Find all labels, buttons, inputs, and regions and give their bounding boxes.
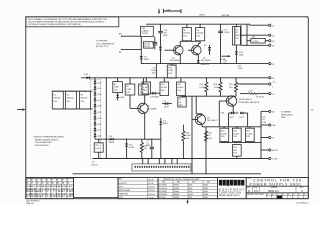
- svg-text:2: 2: [42, 196, 43, 198]
- svg-text:16,000: 16,000: [233, 133, 239, 135]
- capacitor C14: [158, 24, 168, 39]
- terminal 1: [269, 83, 274, 89]
- terminal 43: [269, 40, 275, 43]
- svg-text:TO SERIES: TO SERIES: [281, 112, 292, 114]
- svg-text:DIODES ARE D662: DIODES ARE D662: [35, 141, 52, 144]
- svg-text:1N671: 1N671: [204, 197, 209, 199]
- svg-text:14: 14: [272, 64, 274, 66]
- resistor R14: [160, 77, 169, 95]
- svg-text:G: G: [299, 194, 300, 196]
- diode D8: [151, 92, 161, 99]
- wire +15V to terminal 16: [240, 90, 269, 98]
- svg-text:R10: R10: [95, 145, 98, 147]
- svg-text:A1: A1: [272, 111, 274, 114]
- wire terminal 45: [241, 25, 269, 46]
- svg-text:1,000: 1,000: [168, 70, 173, 72]
- zone label 4D: [311, 110, 314, 112]
- diode string D14-D22: [94, 77, 102, 139]
- svg-text:2N4258: 2N4258: [174, 188, 180, 190]
- svg-text:10%: 10%: [81, 101, 85, 103]
- svg-text:CS: CS: [254, 189, 258, 193]
- wire rail y127: [206, 126, 261, 158]
- svg-text:10%: 10%: [161, 90, 165, 92]
- svg-text:RESISTORS ARE 1/4W,5%,: RESISTORS ARE 1/4W,5%,: [35, 138, 59, 141]
- svg-text:1,000: 1,000: [214, 87, 219, 89]
- svg-text:MFD: MFD: [179, 105, 184, 107]
- terminal 42: [261, 136, 274, 139]
- wire rail y142.6: [219, 142, 261, 143]
- wire bottom rail y158.5: [93, 158, 261, 159]
- svg-text:D671: D671: [239, 117, 244, 119]
- svg-text:R5: R5: [114, 84, 116, 86]
- svg-text:1,800: 1,800: [140, 89, 145, 91]
- svg-text:2N3639: 2N3639: [174, 191, 180, 193]
- svg-text:37: 37: [67, 183, 69, 185]
- svg-text:l: l: [242, 181, 243, 186]
- svg-text:18: 18: [47, 183, 49, 185]
- wire bus mid rail: [141, 63, 269, 64]
- svg-text:566: 566: [272, 125, 275, 127]
- wire terminal 1: [238, 82, 276, 85]
- svg-text:B: B: [272, 194, 273, 196]
- svg-text:750: 750: [144, 148, 147, 150]
- top annotation text 2: [222, 15, 230, 17]
- svg-text:DEC3639B: DEC3639B: [159, 191, 167, 193]
- diode D6: [204, 45, 211, 55]
- svg-text:D-21: D-21: [97, 124, 101, 126]
- resistor R24 zigzag: [182, 125, 191, 159]
- svg-text:180,000: 180,000: [81, 98, 88, 100]
- svg-text:D-660: D-660: [189, 194, 193, 196]
- resistor R9: [139, 78, 149, 95]
- svg-text:11-4-68: 11-4-68: [148, 197, 153, 199]
- svg-text:180,000: 180,000: [183, 33, 190, 35]
- wire top rail right end: [249, 24, 269, 26]
- svg-text:10%: 10%: [53, 101, 57, 103]
- wire bus lower rail: [81, 77, 269, 79]
- diode D9: [162, 100, 172, 108]
- svg-text:D-23: D-23: [97, 136, 101, 138]
- svg-text:D662: D662: [239, 55, 244, 57]
- svg-text:37: 37: [31, 183, 33, 185]
- svg-text:CORPORATION: CORPORATION: [219, 191, 242, 195]
- fuse F1 slow blow: [144, 42, 154, 48]
- revision table bottom-left: [26, 178, 74, 199]
- svg-text:D664: D664: [189, 185, 193, 187]
- svg-text:R14: R14: [161, 84, 164, 86]
- svg-text:R17: R17: [200, 84, 203, 86]
- note unless otherwise indicated: [34, 136, 65, 147]
- svg-text:13: 13: [66, 196, 68, 198]
- diode D26: [239, 112, 247, 119]
- svg-text:D670: D670: [164, 107, 169, 109]
- svg-text:10%: 10%: [246, 136, 250, 138]
- svg-text:05: 05: [58, 196, 60, 198]
- resistor R18: [220, 127, 229, 143]
- svg-text:VOLTS: VOLTS: [92, 164, 99, 166]
- svg-text:D5: D5: [155, 44, 157, 46]
- svg-text:D-15: D-15: [97, 88, 101, 90]
- svg-text:47: 47: [208, 135, 210, 137]
- svg-text:-15: -15: [92, 162, 95, 164]
- svg-text:2: 2: [64, 196, 65, 198]
- svg-text:R54: R54: [186, 132, 189, 134]
- wire Q8 base: [219, 101, 224, 127]
- svg-text:DEC4258: DEC4258: [159, 197, 166, 199]
- svg-text:(RT1) AT 25°C: (RT1) AT 25°C: [96, 45, 109, 48]
- svg-text:DEC3009B: DEC3009B: [170, 60, 180, 62]
- diode D6A on Q2 emitter: [197, 55, 209, 66]
- svg-text:9800-0-1: 9800-0-1: [268, 189, 279, 193]
- svg-text:42: 42: [272, 138, 274, 140]
- svg-text:D-19: D-19: [97, 112, 101, 114]
- svg-text:10%: 10%: [152, 73, 156, 75]
- svg-text:D6A D670: D6A D670: [201, 63, 210, 66]
- svg-text:37: 37: [37, 183, 39, 185]
- svg-text:1N645: 1N645: [204, 185, 209, 187]
- resistor R15: [177, 77, 186, 96]
- svg-text:D671: D671: [189, 197, 193, 199]
- svg-text:4,300: 4,300: [186, 135, 191, 137]
- svg-text:R6: R6: [183, 30, 185, 32]
- top annotation text 1: [199, 14, 205, 16]
- capacitor C22 label: [262, 117, 267, 124]
- svg-text:1N4 JW4: 1N4 JW4: [222, 15, 230, 17]
- resistor R7: [125, 77, 135, 95]
- svg-text:DEC3009B: DEC3009B: [159, 185, 167, 187]
- svg-text:SIZE: SIZE: [247, 187, 250, 189]
- arrow below chart: [186, 199, 188, 203]
- svg-text:1,800: 1,800: [114, 87, 119, 89]
- diode D30: [125, 139, 134, 159]
- svg-text:R23: R23: [233, 147, 236, 149]
- svg-text:10%: 10%: [114, 89, 118, 91]
- svg-text:LM102: LM102: [199, 14, 205, 16]
- resistor R1: [52, 91, 63, 109]
- transistor Q4: [135, 103, 157, 113]
- svg-text:42,000: 42,000: [161, 87, 167, 89]
- svg-text:D-16: D-16: [97, 94, 101, 96]
- svg-text:46: 46: [57, 182, 59, 185]
- svg-text:R7: R7: [126, 86, 128, 88]
- svg-text:CODE: CODE: [253, 187, 257, 189]
- svg-text:10,000: 10,000: [252, 41, 258, 43]
- svg-text:150: 150: [229, 87, 232, 89]
- svg-text:10%: 10%: [186, 138, 190, 140]
- svg-text:E: E: [288, 194, 289, 196]
- svg-text:Q9: Q9: [207, 117, 210, 119]
- svg-text:3: 3: [45, 196, 46, 198]
- svg-text:MFD: MFD: [163, 35, 168, 37]
- svg-text:180,000: 180,000: [67, 98, 74, 100]
- svg-text:TITLE: TITLE: [247, 178, 251, 180]
- signature table: [118, 177, 158, 199]
- svg-text:05: 05: [37, 196, 39, 198]
- svg-text:55: 55: [26, 183, 28, 185]
- svg-text:13: 13: [71, 196, 73, 198]
- svg-text:1N625: 1N625: [204, 188, 209, 190]
- sheet border left: [25, 17, 27, 199]
- svg-text:D664: D664: [144, 59, 149, 61]
- transistor Q1: [170, 45, 183, 66]
- resistor R3: [79, 91, 90, 110]
- diode D1: [140, 54, 149, 63]
- capacitor C2: [178, 96, 186, 107]
- svg-text:680: 680: [224, 63, 227, 65]
- svg-text:J: J: [67, 180, 68, 182]
- svg-text:16,000: 16,000: [246, 133, 252, 135]
- svg-text:10,000: 10,000: [221, 133, 227, 135]
- svg-text:K1: K1: [236, 29, 238, 31]
- resistor R21: [245, 127, 254, 143]
- svg-text:D-13: D-13: [84, 74, 88, 76]
- top annotation arrow: [158, 9, 160, 14]
- resistor R17 zigzag: [200, 77, 208, 96]
- svg-text:2R 29.4%: 2R 29.4%: [256, 96, 265, 98]
- wire rail y139.2: [95, 138, 161, 140]
- svg-text:BLOW: BLOW: [144, 46, 150, 48]
- svg-text:1,500: 1,500: [238, 68, 243, 70]
- svg-text:i: i: [224, 181, 225, 186]
- svg-text:Q4: Q4: [147, 106, 150, 108]
- wire Q4 collector: [144, 95, 145, 140]
- svg-text:16: 16: [272, 94, 274, 96]
- wire stubs to connector: [143, 159, 178, 164]
- wire zero volt rail: [73, 173, 262, 175]
- svg-text:H: H: [304, 194, 305, 196]
- off-sheet arrow at left border: [17, 108, 26, 110]
- svg-text:10-21-68: 10-21-68: [148, 187, 154, 189]
- title block: [246, 177, 308, 198]
- svg-text:CIRCUITS ARE PROPRIETARY IN NA: CIRCUITS ARE PROPRIETARY IN NATURE AND S…: [28, 20, 106, 23]
- svg-text:R8: R8: [196, 30, 198, 32]
- wire left network top: [52, 90, 92, 92]
- wire zigzag bottoms join: [182, 96, 236, 114]
- label -15 VOLTS: [92, 162, 99, 167]
- terminal 18: [269, 77, 274, 80]
- svg-text:40: 40: [236, 32, 238, 34]
- svg-text:F: F: [294, 194, 295, 196]
- resistor R6: [182, 24, 191, 42]
- svg-text:92: 92: [53, 196, 55, 198]
- svg-text:UNLESS OTHERWISE INDICATED:: UNLESS OTHERWISE INDICATED:: [34, 136, 65, 139]
- svg-text:R12: R12: [144, 145, 147, 147]
- svg-text:18: 18: [272, 78, 274, 80]
- svg-text:D: D: [283, 194, 284, 196]
- svg-text:27 BK: 27 BK: [272, 159, 278, 161]
- svg-text:2N4258: 2N4258: [174, 197, 180, 199]
- svg-text:PRINTED CIRCUIT REV.: PRINTED CIRCUIT REV.: [247, 194, 264, 196]
- svg-text:CHK'D: CHK'D: [119, 186, 125, 188]
- wire long vertical x106: [106, 77, 107, 158]
- svg-text:R15: R15: [177, 84, 180, 86]
- svg-text:R4: R4: [143, 84, 145, 86]
- svg-text:D: D: [248, 189, 250, 193]
- svg-text:18: 18: [31, 196, 33, 198]
- conversion chart: [158, 177, 218, 199]
- svg-text:MFD: MFD: [236, 35, 241, 37]
- svg-text:TO PRINTED: TO PRINTED: [96, 41, 108, 43]
- wire Q9 connections: [191, 96, 206, 158]
- band top line: [26, 176, 309, 178]
- svg-text:180,000: 180,000: [196, 33, 203, 35]
- svg-text:1,800: 1,800: [126, 89, 131, 91]
- svg-text:46: 46: [51, 182, 53, 185]
- svg-text:d: d: [219, 181, 222, 186]
- svg-text:10%: 10%: [233, 136, 237, 138]
- svg-text:44: 44: [272, 35, 274, 37]
- svg-text:D662: D662: [189, 188, 193, 190]
- transistor Q2: [188, 45, 211, 62]
- wire Q4 base left: [130, 95, 135, 108]
- faint print smudge bottom right: [296, 202, 308, 204]
- wire left network bottom: [52, 108, 92, 110]
- svg-text:COPYRIGHT 1968 BY DIGITAL EQUI: COPYRIGHT 1968 BY DIGITAL EQUIPMENT CORP…: [28, 23, 81, 26]
- svg-text:+15V: +15V: [248, 90, 253, 92]
- resistor R12 zigzag: [140, 139, 147, 159]
- note to series regulator: [281, 112, 293, 120]
- svg-text:C54: C54: [146, 140, 149, 142]
- svg-text:10%: 10%: [183, 35, 187, 37]
- svg-text:+15: +15: [272, 82, 275, 84]
- terminal 14: [269, 63, 274, 66]
- svg-text:18: 18: [41, 183, 43, 185]
- svg-text:10%: 10%: [196, 35, 200, 37]
- svg-text:R3: R3: [81, 94, 83, 96]
- terminal 21: [269, 24, 275, 27]
- svg-text:C2: C2: [179, 99, 181, 101]
- diode D5: [155, 39, 162, 64]
- svg-text:10%: 10%: [233, 153, 237, 155]
- svg-text:10%: 10%: [168, 73, 172, 75]
- wire thermistor lower: [119, 49, 141, 54]
- svg-text:R2: R2: [67, 94, 69, 96]
- svg-text:CKT'L THERMISTOR: CKT'L THERMISTOR: [96, 43, 115, 45]
- svg-text:2N6534: 2N6534: [174, 194, 180, 196]
- svg-text:05: 05: [55, 196, 57, 198]
- svg-text:Q8 DEC EA-1-2: Q8 DEC EA-1-2: [239, 98, 252, 101]
- transformer LM1: [141, 26, 154, 36]
- svg-text:REGULATOR: REGULATOR: [281, 113, 293, 116]
- transistor Q8: [223, 96, 260, 106]
- svg-text:5408: 5408: [281, 117, 285, 119]
- svg-text:63,000: 63,000: [177, 87, 183, 89]
- svg-text:R9: R9: [140, 86, 142, 88]
- svg-text:i: i: [231, 181, 232, 186]
- svg-text:2N3009: 2N3009: [174, 185, 180, 187]
- terminal 566: [261, 124, 275, 127]
- svg-text:g: g: [226, 181, 229, 186]
- svg-text:R21: R21: [246, 131, 249, 133]
- resistor R16: [167, 63, 176, 78]
- svg-text:D-18: D-18: [97, 106, 101, 108]
- resistor R19: [232, 127, 241, 143]
- svg-text:61: 61: [50, 196, 52, 198]
- svg-text:10%: 10%: [126, 92, 130, 94]
- sheet border top: [26, 16, 309, 18]
- svg-text:D664: D664: [120, 97, 125, 99]
- capacitor C24 label: [224, 60, 227, 64]
- svg-text:R22: R22: [229, 84, 232, 86]
- wire terminal bus vertical: [260, 111, 261, 159]
- resistor R4: [142, 77, 151, 94]
- svg-text:680: 680: [233, 150, 236, 152]
- svg-text:DEC6534B: DEC6534B: [159, 194, 167, 196]
- note TO PRINTED CKT THERMISTOR: [96, 41, 115, 49]
- arrow into relay: [222, 55, 232, 61]
- svg-text:(TURN SAT) SEE NOTE: (TURN SAT) SEE NOTE: [239, 101, 260, 104]
- resistor R20 zigzag: [214, 77, 222, 96]
- diode D24a: [116, 93, 124, 101]
- svg-text:10-7-68: 10-7-68: [148, 179, 154, 181]
- svg-text:180,000: 180,000: [53, 98, 60, 100]
- svg-text:18: 18: [62, 183, 64, 185]
- svg-text:D-20: D-20: [97, 118, 101, 120]
- capacitor C1: [153, 37, 158, 50]
- svg-text:10-31-68: 10-31-68: [148, 190, 154, 192]
- capacitor C44 label: [238, 65, 243, 69]
- svg-text:26: 26: [61, 196, 63, 198]
- svg-text:D6: D6: [204, 45, 206, 47]
- terminal 44: [269, 34, 275, 37]
- svg-text:R19: R19: [233, 131, 236, 133]
- diode D5b: [159, 118, 167, 159]
- svg-text:DRA 110: DRA 110: [26, 202, 33, 205]
- svg-text:D9: D9: [163, 100, 165, 102]
- diode D10: [235, 51, 244, 56]
- svg-text:C46: C46: [221, 113, 224, 115]
- transistor Q9: [192, 114, 217, 124]
- svg-text:A: A: [301, 189, 303, 193]
- svg-text:.01: .01: [179, 102, 182, 104]
- resistor R8: [196, 24, 205, 42]
- svg-text:2: 2: [47, 196, 48, 198]
- svg-text:2,200: 2,200: [200, 87, 205, 89]
- svg-text:1 2R: 1 2R: [262, 122, 267, 124]
- svg-text:10%: 10%: [208, 138, 212, 140]
- svg-text:D24: D24: [109, 136, 112, 138]
- svg-text:DEC EA-1-2: DEC EA-1-2: [207, 119, 217, 122]
- wire Q8 top: [233, 96, 234, 97]
- diode D24: [108, 136, 114, 144]
- note box top-left: [26, 17, 119, 27]
- sheet border bottom: [26, 198, 309, 200]
- relay K1: [232, 24, 240, 65]
- svg-text:R57: R57: [208, 132, 211, 134]
- terminal A1: [261, 110, 275, 113]
- svg-text:R16: R16: [168, 67, 171, 69]
- svg-text:THIS SCHEMATIC IS FURNISHED ON: THIS SCHEMATIC IS FURNISHED ONLY FOR TES…: [28, 18, 108, 21]
- svg-text:21: 21: [272, 25, 274, 27]
- svg-text:2-3/4: 2-3/4: [166, 9, 170, 11]
- svg-text:1: 1: [272, 86, 273, 88]
- diode D13 on rail: [84, 74, 90, 79]
- wire LM1 down: [140, 37, 142, 55]
- resistor R13: [151, 63, 157, 78]
- terminal 16: [269, 93, 275, 96]
- wire terminal 44: [240, 25, 268, 45]
- svg-text:.01: .01: [146, 142, 149, 144]
- svg-text:43: 43: [272, 41, 274, 43]
- dec form note: [26, 201, 40, 205]
- svg-text:R18: R18: [221, 131, 224, 133]
- svg-text:D-660: D-660: [129, 147, 134, 149]
- svg-text:BUS IS A 40197: BUS IS A 40197: [35, 144, 49, 147]
- svg-text:59: 59: [34, 196, 36, 198]
- empty block: [74, 177, 118, 197]
- resistor R10: [94, 139, 103, 159]
- svg-text:D8 1N645: D8 1N645: [151, 96, 160, 98]
